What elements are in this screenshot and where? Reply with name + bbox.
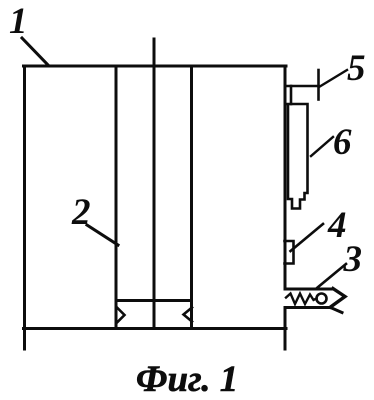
- arrowhead chevron 3: [331, 289, 346, 308]
- svg-text:2: 2: [71, 192, 91, 233]
- leader line 4: [291, 224, 324, 251]
- stub 5 top line: [285, 85, 319, 88]
- leader line 6: [311, 137, 333, 156]
- svg-text:3: 3: [343, 239, 363, 280]
- inner channel right wall: [190, 66, 193, 329]
- stub 5 short vertical: [290, 86, 293, 104]
- housing left wall: [23, 66, 26, 349]
- guide 3 top rail: [285, 288, 333, 291]
- guide 3 bottom rail: [285, 308, 342, 313]
- left pawl triangle: [118, 308, 125, 322]
- svg-text:Фиг. 1: Фиг. 1: [136, 359, 238, 400]
- svg-text:5: 5: [347, 48, 366, 89]
- spring zigzag: [286, 294, 317, 305]
- housing top edge: [24, 65, 287, 68]
- stub 5 tick mark: [317, 70, 320, 100]
- leader line 3: [318, 264, 347, 288]
- housing right wall upper segment: [284, 66, 287, 289]
- roller circle: [317, 294, 327, 304]
- channel bottom bar: [116, 299, 192, 302]
- housing bottom edge: [24, 327, 287, 330]
- leader line 1: [22, 38, 48, 65]
- svg-text:6: 6: [333, 122, 352, 163]
- inner channel left wall: [115, 66, 118, 329]
- housing right wall lower segment: [284, 308, 287, 350]
- center rod line: [153, 39, 156, 329]
- svg-text:1: 1: [9, 1, 28, 42]
- plate 6 outline: [285, 104, 308, 209]
- leader line 5: [319, 70, 347, 87]
- bracket 4: [285, 241, 294, 264]
- leader line 2: [87, 225, 118, 245]
- right pawl triangle: [184, 308, 193, 322]
